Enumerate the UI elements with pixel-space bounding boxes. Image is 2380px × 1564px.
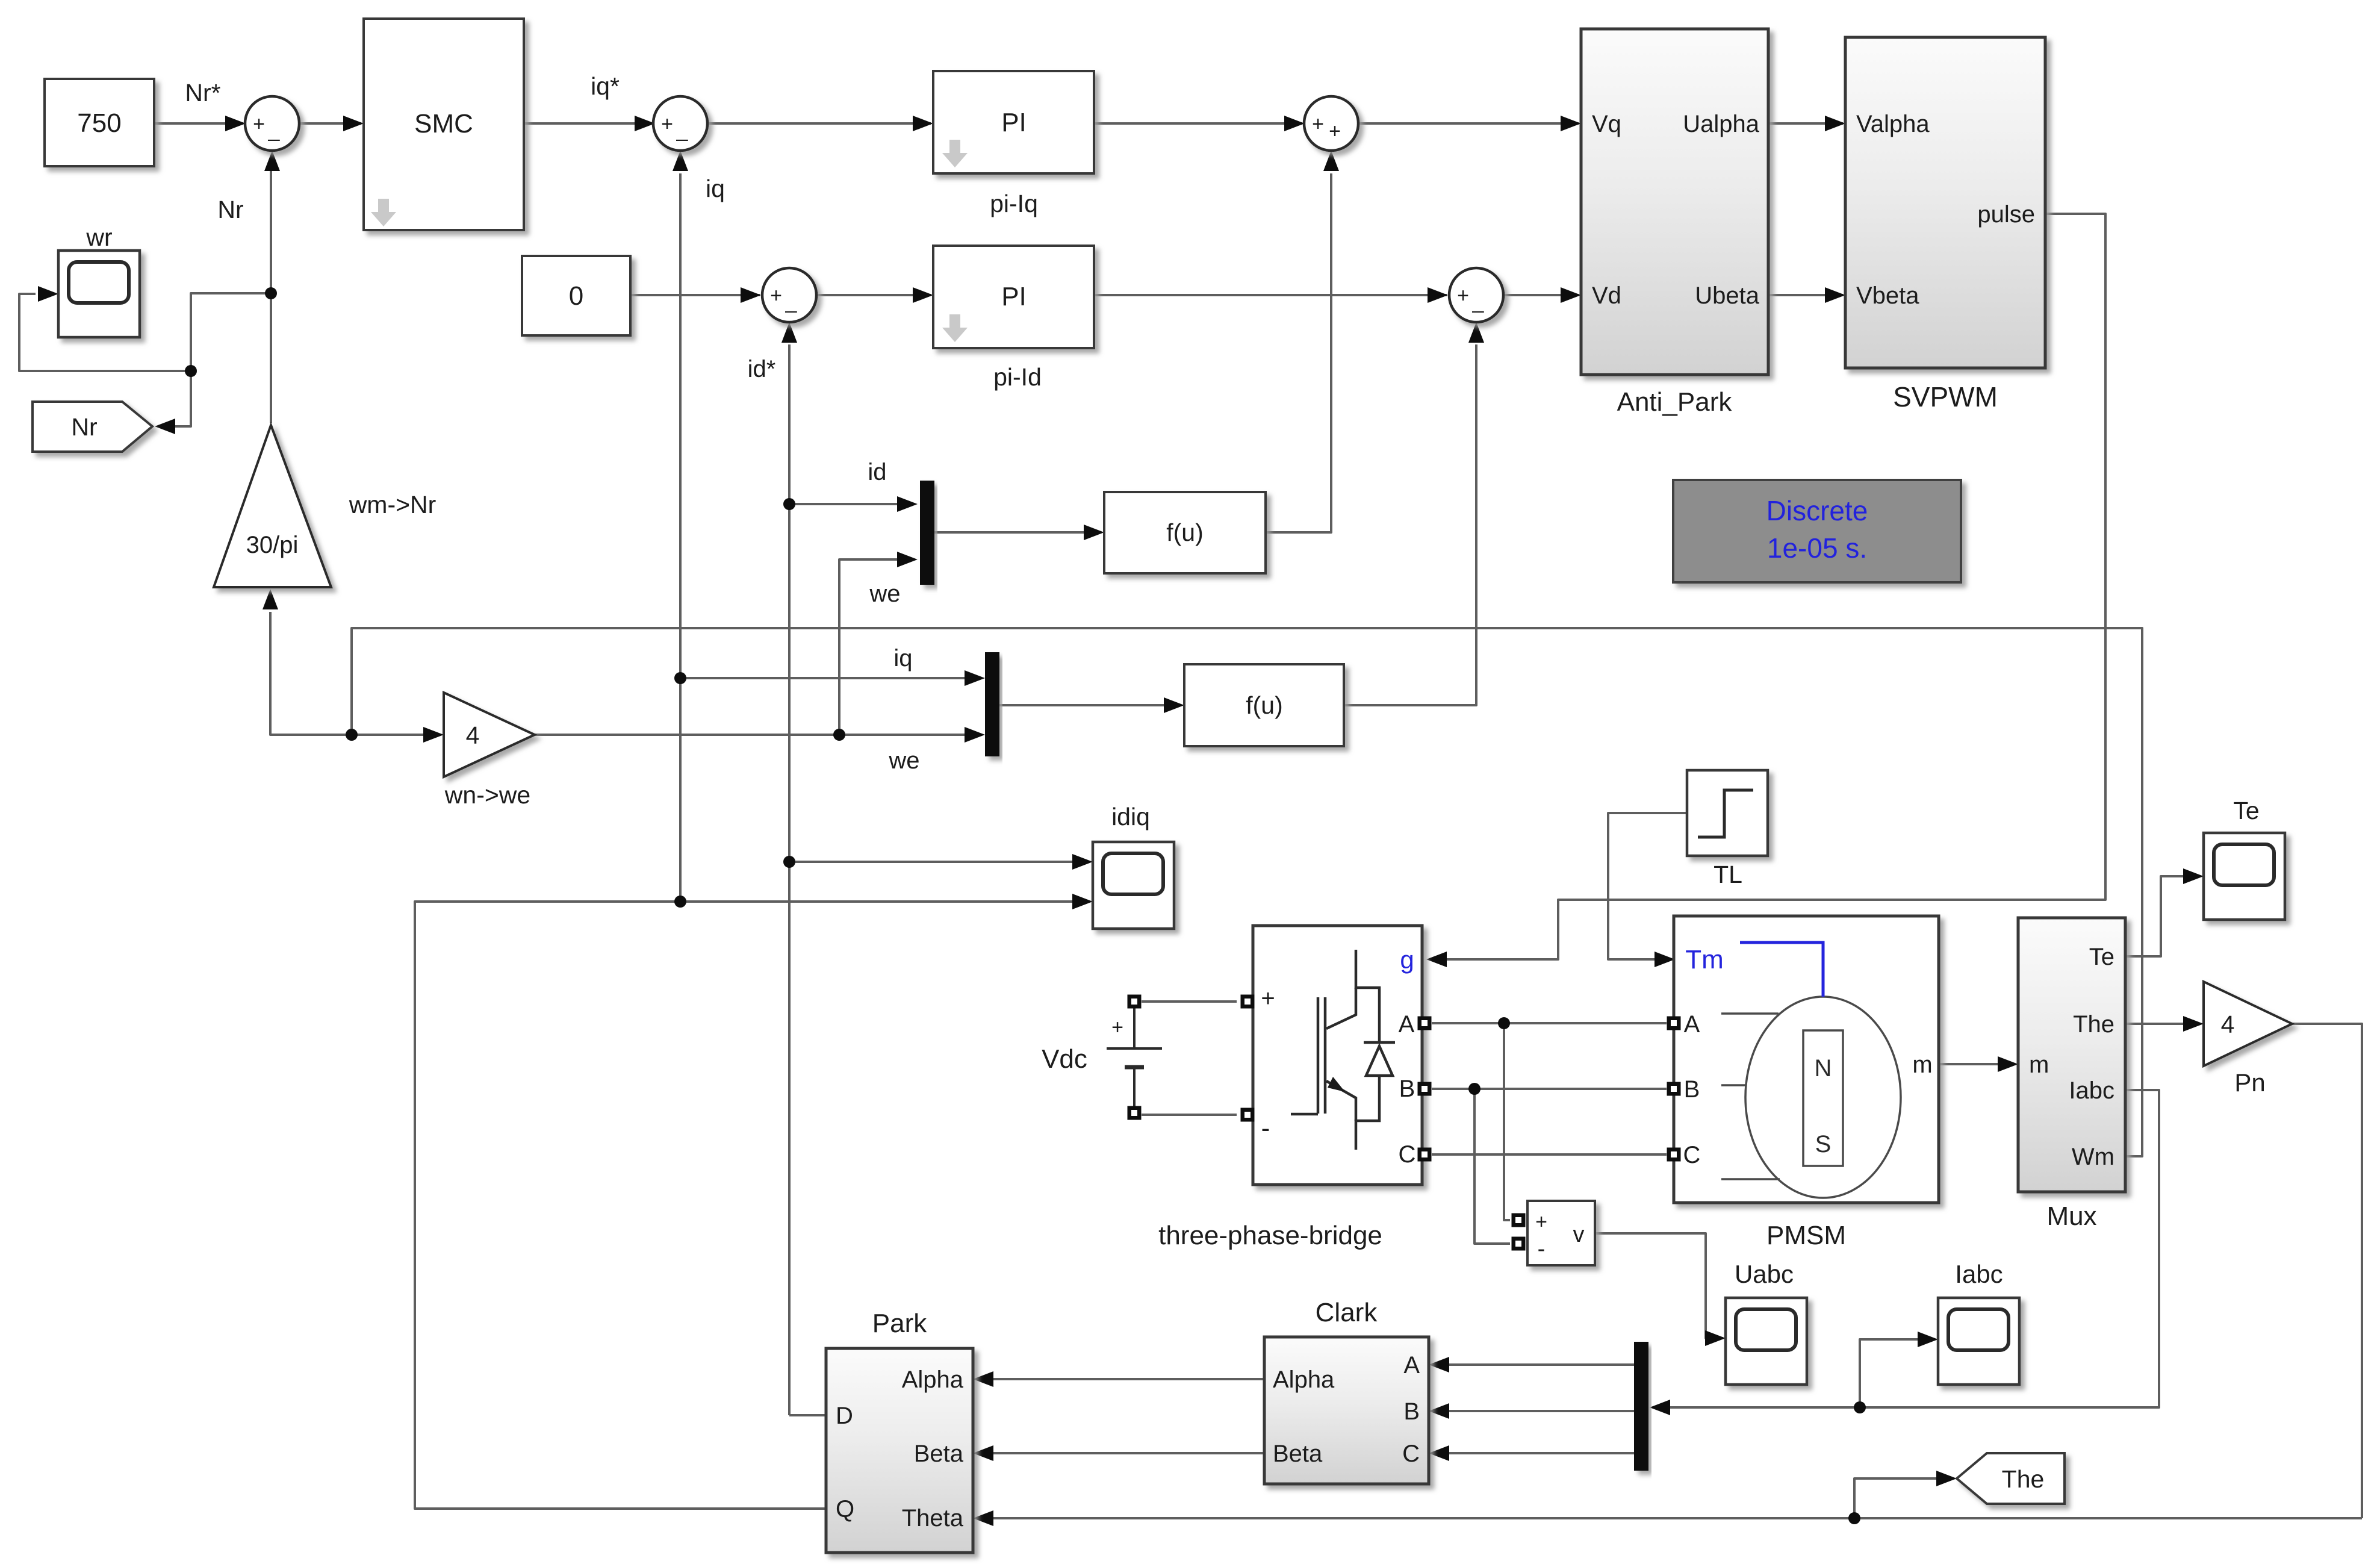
svg-text:f(u): f(u) [1246,691,1283,719]
svg-text:_: _ [785,290,798,313]
svg-text:+: + [661,113,673,136]
arrow into Anti_Park Vq [1561,116,1581,131]
svg-text:+: + [1535,1210,1547,1233]
svg-text:_: _ [268,119,281,142]
wire sum id* to PI pi-Id [816,294,931,296]
subsystem PI pi-Id [933,246,1094,348]
svg-text:Theta: Theta [902,1505,964,1531]
arrow into mux2 iq [965,670,985,686]
arrow into Clark B [1429,1403,1449,1419]
port voltmeter plus [1512,1214,1526,1227]
svg-text:we: we [888,747,919,774]
arrow into Anti_Park Vd [1561,287,1581,303]
wire we from gain to mux2 [535,734,965,736]
svg-text:id: id [868,459,886,485]
svg-text:Nr: Nr [217,196,243,223]
wire Clark Alpha to Park Alpha [993,1378,1264,1380]
subsystem SVPWM [1845,37,2045,368]
port bridge minus [1241,1108,1255,1122]
svg-text:Beta: Beta [1273,1441,1323,1467]
svg-text:B: B [1684,1076,1700,1103]
wire demux to Clark B [1449,1410,1634,1412]
node phase B junction [1468,1083,1481,1095]
arrow into idiq input2 [1072,894,1093,909]
node Theta junction [1848,1512,1860,1524]
arrow into Clark C [1429,1445,1449,1461]
svg-text:B: B [1399,1076,1415,1102]
arrow into SVPWM Valpha [1825,116,1845,131]
sum junction iq* - iq [653,96,707,151]
DC source Vdc [1042,1008,1162,1107]
arrow into pi-Iq [913,116,933,131]
svg-text:Wm: Wm [2072,1144,2114,1170]
svg-text:4: 4 [2221,1011,2235,1038]
arrow into SVPWM Vbeta [1825,287,1845,303]
svg-text:SVPWM: SVPWM [1893,381,1998,413]
demux bar [1634,1342,1648,1471]
wire TL to PMSM Tm [1608,813,1687,959]
wire branch to wr scope [19,294,191,371]
arrow into idiq input1 [1072,854,1093,870]
arrow up into sum Nr [264,151,280,171]
wire Vdc minus to bridge [1142,1114,1237,1116]
icon SMC mask arrow [371,199,396,226]
wire The tag stub [1854,1478,1936,1518]
svg-text:idiq: idiq [1111,803,1150,830]
arrow into SMC [343,116,364,131]
wire mux1 to fu1 [933,531,1084,534]
wire Ualpha to Valpha [1768,122,1843,125]
step block TL [1687,770,1768,856]
scope idiq [1093,842,1174,929]
arrow up into sum iq [673,151,688,171]
svg-text:m: m [2029,1051,2049,1078]
svg-text:The: The [2073,1011,2114,1038]
icon pi-Id mask arrow [942,314,968,342]
port voltmeter minus [1512,1237,1526,1251]
wire bridge A to PMSM A [1432,1022,1667,1024]
wire pulse feedback to g [1429,214,2105,959]
svg-text:id*: id* [748,356,776,382]
wire id to scope idiq [789,861,1072,863]
arrow into Park Theta [973,1510,993,1526]
wire Clark Beta to Park Beta [993,1452,1264,1454]
wire Mux The to gain Pn [2125,1023,2183,1025]
arrow into PMSM Tm [1655,952,1675,967]
gain 30/pi [214,425,331,587]
svg-text:TL: TL [1714,861,1742,888]
port Vdc minus terminal [1128,1106,1142,1120]
svg-text:PI: PI [1001,282,1027,311]
wire fu1 to sum Vq lower input [1266,173,1331,532]
arrow up into sum Vd [1468,322,1484,343]
scope Iabc [1938,1298,2019,1385]
svg-text:Pn: Pn [2234,1068,2265,1097]
svg-text:Mux: Mux [2046,1201,2096,1231]
arrow into Park Beta [973,1445,993,1461]
mux1 id we [920,481,934,585]
arrow into demux [1650,1400,1670,1415]
wire Park D output [789,1414,826,1416]
svg-text:Nr: Nr [71,413,97,441]
svg-text:m: m [1912,1051,1932,1078]
svg-text:pi-Iq: pi-Iq [990,190,1038,217]
svg-text:S: S [1815,1131,1832,1157]
svg-text:0: 0 [569,281,583,311]
svg-text:Ubeta: Ubeta [1695,282,1759,309]
port bridge C [1418,1148,1432,1162]
wire PMSM m to Mux m [1939,1063,1998,1065]
goto tag Nr [33,402,152,452]
arrow into scope Uabc [1705,1330,1726,1346]
svg-text:Alpha: Alpha [902,1366,964,1393]
svg-text:+: + [253,113,265,136]
scope Uabc [1726,1298,1807,1385]
gain Pn value 4 [2204,982,2292,1066]
svg-text:4: 4 [466,721,480,749]
function block fu2 [1184,664,1344,746]
svg-text:A: A [1403,1352,1420,1379]
wire SMC iq* to sum iq [524,122,653,125]
wire phase B to voltmeter minus [1474,1089,1510,1244]
svg-text:_: _ [676,119,689,142]
svg-text:SMC: SMC [414,109,473,139]
arrow into pi-Id [913,287,933,303]
port PMSM B [1667,1082,1681,1096]
port bridge B [1418,1082,1432,1096]
wire Mux Te to scope Te [2125,876,2183,956]
mux2 iq we [985,652,999,756]
svg-text:PI: PI [1001,108,1027,137]
svg-text:wm->Nr: wm->Nr [349,491,437,519]
svg-text:f(u): f(u) [1166,519,1204,546]
arrow into Clark A [1429,1357,1449,1372]
wire id branch to mux1 [789,503,897,505]
svg-text:v: v [1573,1222,1585,1247]
svg-text:B: B [1403,1398,1420,1425]
svg-text:we: we [869,581,900,607]
wire sum Vd to Anti_Park Vd [1505,294,1579,296]
subsystem Clark [1264,1337,1429,1484]
port bridge A [1418,1017,1432,1030]
wire bridge C to PMSM C [1432,1153,1667,1156]
wire Iabc to scope Iabc [1860,1339,1918,1407]
svg-text:Iabc: Iabc [1955,1260,2002,1288]
arrow into sum id* [741,287,761,303]
svg-text:Vdc: Vdc [1042,1044,1087,1074]
node we junction [833,729,845,741]
svg-text:wr: wr [85,223,112,251]
svg-text:Te: Te [2233,797,2259,824]
subsystem PI pi-Iq [933,71,1094,173]
node id to idiq junction [783,856,795,868]
svg-text:Q: Q [836,1496,854,1522]
svg-text:N: N [1815,1055,1832,1082]
svg-text:-: - [1538,1236,1546,1262]
function block fu1 [1104,492,1266,573]
sum junction speed (Nr* - Nr) [245,96,299,151]
svg-text:Valpha: Valpha [1856,111,1930,137]
svg-text:Vd: Vd [1592,282,1621,309]
wire Park Q loop to scope idiq [415,902,1072,1509]
wire pi-Id to sum Vd [1094,294,1447,296]
svg-text:Tm: Tm [1685,945,1724,974]
node Iabc junction [1854,1401,1866,1413]
svg-text:Beta: Beta [914,1441,964,1467]
svg-text:+: + [1261,985,1275,1012]
powergui block Discrete 1e-05 s. [1673,480,1961,582]
node iq to mux2 junction [674,672,686,684]
svg-text:C: C [1683,1142,1701,1168]
arrow into mux1 id [897,496,918,512]
wire node iq vertical [679,173,682,902]
svg-text:1e-05 s.: 1e-05 s. [1767,532,1867,564]
arrow into fu2 [1164,697,1184,713]
wire Mux Iabc to demux [1670,1090,2159,1407]
wire sum Vq to Anti_Park Vq [1358,122,1579,125]
node Nr junction [265,287,277,299]
svg-text:iq*: iq* [591,72,620,100]
wire demux to Clark A [1449,1363,1634,1366]
wire 750 to sum Nr [154,122,243,125]
arrow into gain wn-we [423,727,444,743]
sum junction Vd (+ -) [1449,268,1503,322]
arrow into scope Te [2183,868,2204,884]
svg-text:C: C [1399,1141,1416,1168]
svg-text:C: C [1402,1441,1420,1467]
scope wr [58,251,140,337]
arrow into sum Nr [225,116,246,131]
port PMSM C [1667,1148,1681,1162]
arrow into wr scope [38,286,58,302]
node phase A junction [1498,1017,1510,1029]
svg-text:wn->we: wn->we [444,781,530,809]
wire wm to gain 30/pi [270,612,352,735]
sum junction id* - id [762,268,816,322]
wire wm to gain wn-we [352,734,423,736]
subsystem Park [826,1348,973,1553]
port Vdc plus terminal [1128,995,1142,1009]
arrow into Nr tag [155,419,175,434]
svg-text:iq: iq [706,175,725,202]
svg-text:g: g [1400,946,1414,974]
svg-text:iq: iq [893,645,912,671]
constant 0 [522,256,630,335]
svg-text:Clark: Clark [1316,1298,1378,1327]
svg-text:Te: Te [2089,944,2114,970]
wire phase A to voltmeter plus [1504,1023,1510,1220]
wire Nr branch to wr and tag [175,293,271,426]
svg-text:+: + [1457,284,1469,307]
arrow into gain Pn [2183,1016,2204,1032]
svg-text:+: + [1312,113,1324,136]
wire voltmeter v to scope Uabc [1595,1233,1723,1338]
port PMSM A [1667,1017,1681,1030]
arrow into fu1 [1084,525,1104,540]
svg-text:30/pi: 30/pi [246,532,299,558]
subsystem SMC [364,19,524,230]
svg-text:-: - [1261,1114,1270,1143]
svg-text:Nr*: Nr* [185,79,220,107]
wire sum Nr to SMC [299,122,361,125]
voltage measurement block [1527,1201,1595,1265]
arrow into sum iq [635,116,655,131]
constant 750 [45,79,154,166]
svg-text:The: The [2002,1465,2045,1493]
arrow into Park Alpha [973,1371,993,1387]
svg-text:Discrete: Discrete [1766,495,1868,526]
sum junction Vq (+ +) [1304,96,1358,151]
arrow into mux2 we [965,727,985,743]
PMSM motor icon [1721,997,1901,1198]
subsystem Mux [2018,918,2125,1192]
svg-text:Anti_Park: Anti_Park [1617,387,1733,417]
wire we branch to mux1 [839,559,897,735]
wire mux2 to fu2 [998,704,1164,706]
svg-text:Park: Park [872,1309,927,1338]
arrow into mux1 we [897,552,918,567]
svg-text:+: + [1329,120,1341,143]
node wr branch junction [185,365,197,377]
wire node Nr vertical [270,171,272,423]
node iq bottom junction [674,896,686,908]
arrow up into gain 30/pi [263,589,278,609]
port bridge plus [1241,995,1255,1009]
gain wn-&gt;we value 4 [444,693,535,777]
svg-text:A: A [1399,1011,1415,1038]
wire Pn output down [2292,1024,2362,1518]
svg-text:PMSM: PMSM [1766,1221,1846,1250]
arrow into The tag [1936,1471,1957,1486]
subsystem Anti_Park [1581,29,1768,375]
bridge icon IGBT and diode [1291,950,1395,1150]
svg-text:+: + [770,284,782,307]
arrow into sum Vq [1284,116,1305,131]
svg-text:Alpha: Alpha [1273,1366,1335,1393]
wire Ubeta to Vbeta [1768,294,1843,296]
wire 0 to sum id* [630,294,760,296]
wire Tm internal blue [1740,942,1823,997]
wire bridge B to PMSM B [1432,1088,1667,1090]
svg-text:Vbeta: Vbeta [1856,282,1919,309]
wire pi-Iq to sum Vq [1094,122,1302,125]
icon pi-Iq mask arrow [942,140,968,167]
node wm junction [346,729,358,741]
svg-text:+: + [1111,1016,1123,1039]
subsystem PMSM [1674,916,1939,1203]
subsystem three-phase-bridge [1253,926,1422,1185]
from tag The [1957,1453,2065,1504]
svg-text:Uabc: Uabc [1735,1260,1794,1288]
svg-text:_: _ [1472,290,1485,313]
svg-text:pi-Id: pi-Id [993,363,1042,391]
node id to mux1 junction [783,498,795,510]
wire sum iq to PI pi-Iq [709,122,931,125]
wire fu2 to sum Vd lower input [1344,344,1476,705]
svg-text:Vq: Vq [1592,111,1621,137]
wire Vdc plus to bridge [1142,1000,1237,1003]
arrow into Mux m [1998,1056,2018,1072]
arrow up into sum Vq [1323,151,1339,171]
wire Theta long [993,1517,2362,1519]
svg-text:Iabc: Iabc [2069,1077,2114,1104]
svg-text:D: D [836,1403,853,1429]
svg-text:pulse: pulse [1977,201,2035,228]
svg-text:three-phase-bridge: three-phase-bridge [1158,1221,1382,1250]
svg-text:A: A [1684,1011,1700,1038]
wire Wm feedback long [352,628,2142,1156]
arrow into bridge g [1426,952,1447,967]
svg-text:750: 750 [77,108,121,138]
wire demux to Clark C [1449,1452,1634,1454]
wire iq branch to mux2 [680,677,965,679]
scope Te [2204,833,2285,920]
arrow up into sum id* [781,322,797,343]
arrow into scope Iabc [1918,1332,1938,1347]
arrow into sum Vd [1428,287,1448,303]
wire node id vertical [788,344,791,1415]
svg-text:Ualpha: Ualpha [1683,111,1760,137]
